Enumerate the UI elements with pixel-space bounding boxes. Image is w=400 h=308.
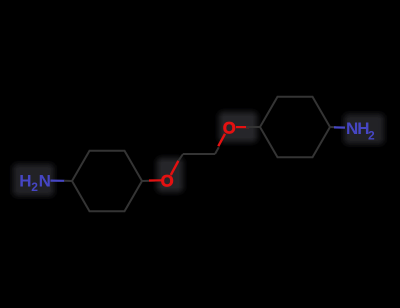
halo behind NH2 label [344,114,384,144]
bond C(ring2)-N2 blue half [334,126,345,128]
bond C(ring2)-N2 carbon half [330,126,336,128]
bond O2-C(ring2) red half [236,126,249,128]
bond C2-O2 carbon half [215,147,219,154]
svg-text:O: O [161,172,174,190]
bond C1-C2 [183,153,215,155]
svg-text:2: 2 [368,129,375,143]
bond O2-C(ring2) carbon half [246,126,260,128]
svg-text:O: O [223,119,236,137]
halo behind O1 label [157,158,183,192]
benzene ring 1 (left) [72,151,142,212]
bond C(ring1)-O1 carbon half [142,180,155,182]
svg-text:2: 2 [31,180,38,194]
halo behind H2N label [13,164,54,196]
bond O1-C1 carbon half [178,154,183,161]
halo behind O2 label [219,112,257,142]
bond N1-C(ring1) blue half [51,180,65,182]
svg-text:N: N [39,172,51,191]
svg-text:H: H [19,172,31,191]
bond C2-O2 red half [218,134,225,146]
bond O1-C1 red half [171,161,179,175]
bond N1-C(ring1) carbon half [64,180,72,182]
benzene ring 2 (right) [260,97,330,158]
bond C(ring1)-O1 red half [149,179,162,181]
